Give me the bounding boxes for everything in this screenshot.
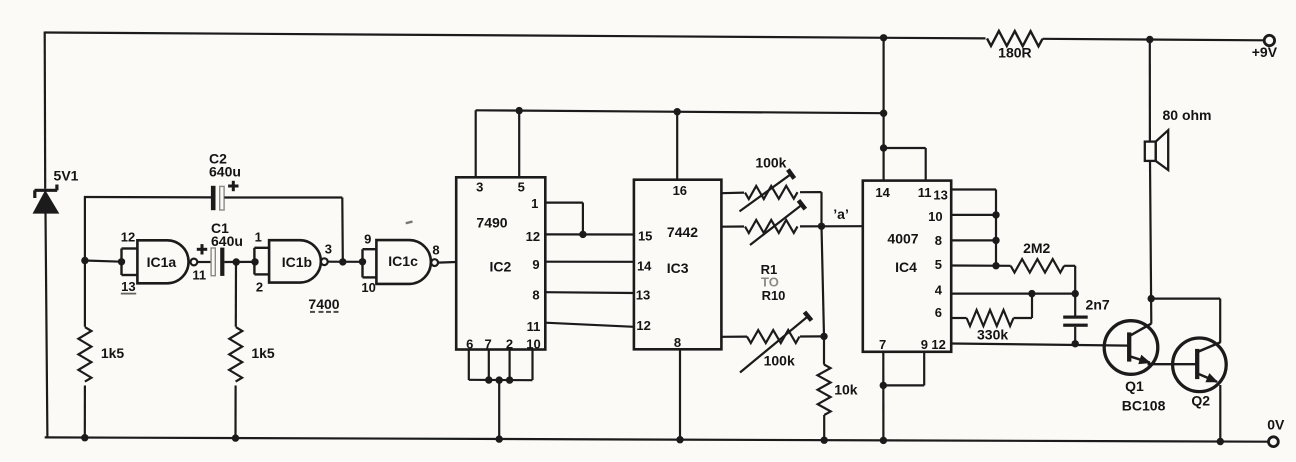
svg-text:Q1: Q1 (1125, 378, 1144, 394)
svg-text:13: 13 (933, 188, 947, 203)
svg-text:11: 11 (527, 319, 541, 334)
svg-text:6: 6 (466, 336, 473, 351)
svg-text:10: 10 (361, 280, 375, 295)
svg-text:0V: 0V (1267, 417, 1285, 433)
svg-text:8: 8 (935, 233, 942, 248)
svg-text:10k: 10k (834, 381, 858, 397)
svg-text:Q2: Q2 (1191, 393, 1210, 409)
svg-text:2M2: 2M2 (1023, 240, 1050, 256)
svg-text:2: 2 (506, 336, 513, 351)
svg-text:IC1b: IC1b (282, 254, 312, 270)
svg-text:4007: 4007 (887, 231, 918, 247)
svg-text:2n7: 2n7 (1086, 297, 1110, 313)
svg-text:14: 14 (875, 185, 890, 200)
svg-text:5: 5 (518, 180, 525, 195)
svg-text:IC2: IC2 (490, 259, 512, 275)
svg-text:640u: 640u (209, 163, 241, 179)
svg-text:3: 3 (325, 242, 332, 257)
svg-text:’a’: ’a’ (833, 206, 849, 222)
svg-text:BC108: BC108 (1122, 397, 1166, 413)
svg-text:8: 8 (674, 335, 681, 350)
svg-text:10: 10 (526, 336, 540, 351)
svg-text:100k: 100k (755, 154, 786, 170)
svg-text:1k5: 1k5 (101, 345, 125, 361)
svg-text:11: 11 (918, 185, 932, 200)
svg-text:7442: 7442 (667, 224, 698, 240)
svg-text:15: 15 (638, 228, 652, 243)
svg-text:12: 12 (526, 229, 540, 244)
svg-text:+9V: +9V (1252, 44, 1278, 60)
svg-text:13: 13 (121, 279, 135, 294)
svg-text:3: 3 (476, 180, 483, 195)
svg-text:IC3: IC3 (667, 260, 689, 276)
svg-text:12: 12 (931, 337, 945, 352)
svg-text:5V1: 5V1 (54, 168, 79, 184)
svg-text:10: 10 (928, 209, 942, 224)
svg-text:6: 6 (935, 305, 942, 320)
svg-text:16: 16 (673, 183, 687, 198)
svg-text:IC1a: IC1a (147, 254, 177, 270)
svg-text:8: 8 (432, 243, 439, 258)
svg-text:12: 12 (636, 318, 650, 333)
svg-text:13: 13 (636, 288, 650, 303)
svg-text:9: 9 (364, 231, 371, 246)
svg-text:1: 1 (531, 196, 538, 211)
svg-text:1: 1 (255, 230, 262, 245)
svg-text:IC1c: IC1c (388, 253, 418, 269)
svg-text:640u: 640u (211, 233, 243, 249)
svg-text:11: 11 (192, 268, 206, 283)
svg-text:7490: 7490 (476, 215, 507, 231)
svg-text:12: 12 (121, 230, 135, 245)
svg-text:1k5: 1k5 (251, 345, 275, 361)
svg-text:8: 8 (532, 288, 539, 303)
svg-text:330k: 330k (977, 326, 1008, 342)
svg-text:180R: 180R (998, 45, 1031, 61)
svg-text:IC4: IC4 (895, 259, 917, 275)
svg-text:2: 2 (256, 280, 263, 295)
svg-text:9: 9 (921, 337, 928, 352)
svg-text:4: 4 (935, 282, 943, 297)
svg-text:7400: 7400 (308, 296, 339, 312)
svg-text:7: 7 (879, 337, 886, 352)
svg-text:7: 7 (484, 336, 491, 351)
svg-text:100k: 100k (764, 352, 795, 368)
svg-text:80 ohm: 80 ohm (1162, 107, 1211, 123)
svg-text:14: 14 (637, 258, 652, 273)
svg-text:R10: R10 (762, 288, 786, 303)
svg-text:5: 5 (935, 257, 942, 272)
svg-text:9: 9 (532, 257, 539, 272)
